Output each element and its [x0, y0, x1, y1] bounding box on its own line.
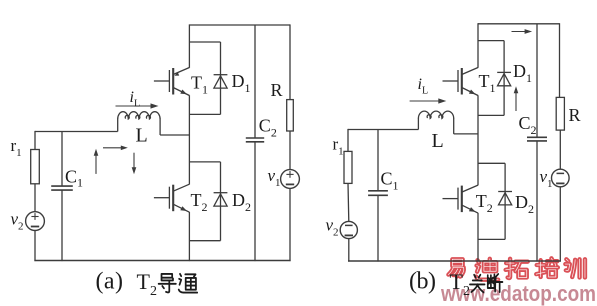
svg-text:R: R — [271, 80, 283, 100]
wire: circuit (b) main rail middle segment — [477, 95, 479, 185]
wire: circuit (a) main rail lower segment — [188, 212, 190, 261]
wire: D2 branch (b) — [504, 163, 506, 239]
resistor R (b) — [556, 97, 564, 130]
wire: C2 branch upper (b) — [536, 24, 538, 138]
wire: C2 branch upper (a) — [254, 25, 256, 138]
caption (a) CJK dao (conducting) — [159, 274, 176, 293]
wire: T2/D2 loop bottom (a) — [189, 240, 220, 242]
wire: bottom rail (a) — [34, 260, 290, 262]
wire: C1 branch upper (b) — [377, 130, 379, 191]
inductor L (a) — [118, 112, 160, 119]
svg-text:L: L — [432, 130, 444, 152]
wire: circuit (a) main rail upper segment — [188, 24, 190, 67]
caption (b) CJK guan (off) — [470, 275, 485, 293]
watermark red CJK: yi di tuo pei xun — [448, 259, 463, 276]
wire: v2 to bottom rail (b) — [348, 239, 350, 262]
wire: R branch top (b) — [559, 23, 561, 97]
annotation arrow top (b) — [512, 31, 529, 33]
wire: circuit (b) top rail — [478, 23, 560, 25]
wire: C2 branch lower (a) — [254, 142, 256, 261]
wire: circuit (a) main rail middle segment — [188, 95, 190, 184]
source v1 (a) — [281, 170, 300, 189]
wire: coil left drop (b) — [417, 118, 419, 130]
wire: r1 to v2 (a) — [34, 184, 36, 212]
wire: D1 branch (b) — [503, 41, 505, 116]
diode D2b — [498, 192, 512, 205]
annotation right arrow (a) — [103, 147, 124, 149]
annotation up arrow near D1 (b) — [515, 91, 517, 112]
wire: v2 to bottom rail (a) — [34, 231, 36, 262]
caption (a) CJK tong — [179, 274, 197, 293]
resistor r1 (a) — [31, 150, 40, 184]
caption (b) CJK duan — [488, 274, 503, 292]
wire: coil left drop (a) — [117, 119, 119, 132]
annotation up arrow (a) — [95, 153, 97, 174]
transistor T2a (IGBT) — [154, 184, 190, 212]
capacitor C1 (a) — [51, 185, 73, 187]
diode D1b — [497, 72, 511, 85]
annotation arrow iL (b) — [410, 100, 442, 102]
wire: C1 branch lower (b) — [377, 195, 379, 261]
wire: r1 to v2 (b) — [347, 183, 350, 221]
transistor T2b (IGBT) — [443, 185, 479, 213]
wire: bottom rail (b) — [348, 260, 561, 262]
wire: R branch top (a) — [289, 24, 291, 99]
wire: R to v1 (a) — [289, 131, 291, 170]
wire: left horizontal wire (b) — [348, 129, 418, 131]
wire: T2/D2 loop top (b) — [478, 162, 505, 164]
wire: C1 branch upper (a) — [61, 132, 63, 187]
wire: midpoint wire from L to rail (b) — [454, 133, 478, 135]
capacitor C2 (a) — [246, 137, 264, 139]
wire: r1 top lead (a) — [34, 131, 36, 150]
resistor R (a) — [287, 100, 294, 131]
wire: D1 branch (a) — [220, 42, 222, 114]
wire: T2/D2 loop top (a) — [189, 161, 220, 163]
wire: midpoint wire from L to rail (a) — [160, 134, 189, 136]
source v1 (b) — [552, 169, 570, 187]
wire: coil right drop (b) — [453, 118, 455, 134]
source v2 (a) — [26, 212, 45, 231]
wire: circuit (b) main rail upper segment — [477, 23, 479, 68]
svg-text:L: L — [136, 125, 148, 147]
wire: C1 branch lower (a) — [61, 190, 63, 261]
diode D2a — [214, 193, 228, 206]
inductor L (b) — [418, 111, 453, 118]
wire: T1/D1 loop bottom (a) — [189, 113, 220, 115]
resistor r1 (b) — [344, 151, 352, 183]
wire: coil right drop (a) — [159, 119, 161, 135]
wire: T1/D1 loop top (b) — [478, 40, 504, 42]
transistor T1b (IGBT) — [443, 68, 479, 96]
svg-text:(b): (b) — [409, 269, 436, 295]
wire: C2 branch lower (b) — [536, 141, 538, 262]
wire: circuit (a) top rail — [189, 24, 290, 26]
wire: R to v1 (b) — [559, 130, 561, 169]
svg-text:(a): (a) — [96, 269, 124, 295]
wire: v1 to bottom rail (a) — [289, 188, 291, 261]
svg-text:R: R — [569, 105, 581, 125]
capacitor C1 (b) — [368, 190, 388, 192]
wire: circuit (b) main rail lower segment — [477, 213, 479, 262]
wire: T1/D1 loop top (a) — [189, 41, 220, 43]
wire: v1 to bottom rail (b) — [559, 187, 561, 262]
diode D1a — [214, 75, 228, 88]
wire: T1/D1 loop bottom (b) — [478, 114, 504, 116]
wire: T2/D2 loop bottom (b) — [478, 238, 505, 240]
wire: left horizontal wire (a) — [35, 131, 118, 133]
wire: D2 branch (a) — [220, 162, 222, 241]
annotation down arrow (a) — [133, 153, 135, 170]
transistor T1a (IGBT) — [154, 68, 190, 96]
wire: r1 top lead (b) — [347, 129, 349, 152]
capacitor C2 (b) — [527, 136, 547, 138]
source v2 (b) — [340, 221, 357, 238]
annotation arrow iL (a) — [116, 105, 155, 107]
